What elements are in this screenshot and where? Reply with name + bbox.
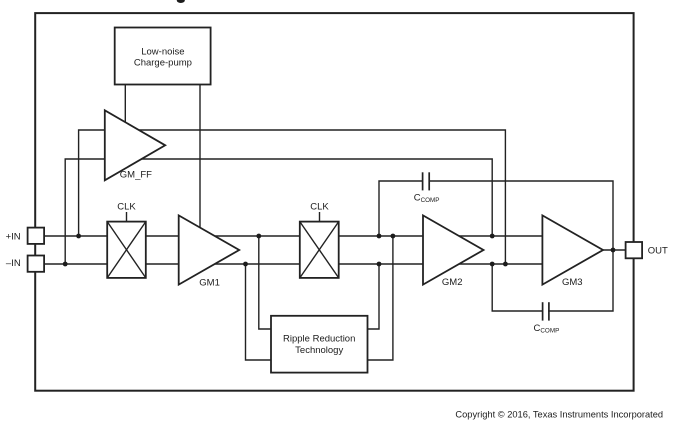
- wire signal bottom rail -IN to GM3 input: [40, 263, 542, 265]
- pin +IN: [28, 228, 44, 244]
- wire CLK tick chopper 1: [126, 212, 128, 222]
- cropped text remnant at top: [177, 0, 185, 3]
- svg-text:Ripple Reduction: Ripple Reduction: [283, 334, 355, 345]
- chopper switch 1 X: [107, 222, 146, 278]
- wire GM1 bottom output to ripple box lower-left: [246, 264, 272, 360]
- node GM1 top output junction: [256, 234, 261, 239]
- op-amp GM3: [542, 215, 603, 284]
- node C_COMP bottom left junction: [490, 262, 495, 267]
- wire C_COMP bottom capacitor left lead: [492, 264, 542, 311]
- capacitor C_COMP top plates: [422, 172, 424, 190]
- wire GM2 bottom input to ripple box upper-right: [368, 264, 380, 329]
- ripple reduction box: [271, 316, 368, 373]
- svg-text:GM1: GM1: [199, 277, 220, 288]
- svg-text:CCOMP: CCOMP: [414, 192, 440, 204]
- svg-text:Charge-pump: Charge-pump: [134, 57, 192, 68]
- wire GM2 top input to ripple box lower-right: [368, 236, 393, 360]
- pin -IN: [28, 256, 44, 272]
- node -IN junction: [63, 262, 68, 267]
- svg-text:GM_FF: GM_FF: [120, 169, 152, 180]
- wire charge-pump left supply to GM_FF: [124, 85, 126, 135]
- wire +IN to GM_FF top input riser and GM_FF top output to GM2 output node: [79, 130, 506, 264]
- op-amp GM1: [179, 215, 240, 284]
- svg-text:Technology: Technology: [295, 345, 343, 356]
- node C_COMP top left junction: [377, 234, 382, 239]
- node GM1 bottom output junction: [243, 262, 248, 267]
- svg-text:GM3: GM3: [562, 277, 583, 288]
- wire C_COMP top capacitor left lead: [379, 181, 423, 236]
- chopper switch 1: [107, 222, 146, 278]
- wire GM3 output to OUT pin: [603, 249, 626, 251]
- pin OUT: [626, 242, 643, 258]
- svg-text:OUT: OUT: [648, 245, 668, 256]
- wire charge-pump right supply to GM1: [199, 85, 201, 237]
- svg-text:Copyright © 2016, Texas Instru: Copyright © 2016, Texas Instruments Inco…: [455, 410, 663, 420]
- wire signal top rail +IN to GM3 input: [40, 235, 542, 237]
- node ripple lower-right junction: [391, 234, 396, 239]
- wire -IN to GM_FF bottom input riser and GM_FF bottom output to GM2 output node: [65, 159, 492, 264]
- chopper switch 2: [300, 222, 339, 278]
- svg-text:CLK: CLK: [310, 201, 329, 212]
- op-amp GM_FF: [105, 110, 165, 180]
- svg-text:CLK: CLK: [117, 201, 136, 212]
- svg-text:+IN: +IN: [6, 232, 21, 243]
- node GM_FF top output junction: [503, 262, 508, 267]
- svg-text:–IN: –IN: [6, 258, 21, 269]
- node OUT junction: [611, 248, 616, 253]
- svg-text:GM2: GM2: [442, 277, 463, 288]
- node +IN junction: [76, 234, 81, 239]
- border frame: [35, 13, 633, 391]
- capacitor C_COMP bottom plates: [542, 302, 544, 320]
- wire CLK tick chopper 2: [319, 212, 321, 222]
- charge pump box: [115, 28, 211, 85]
- svg-text:CCOMP: CCOMP: [534, 323, 560, 335]
- chopper switch 2 X: [300, 222, 339, 278]
- wire GM1 top output to ripple box upper-left: [259, 236, 271, 329]
- node GM_FF bottom output junction: [490, 234, 495, 239]
- wire C_COMP top capacitor right lead to OUT node riser to C_COMP bottom right lead: [429, 181, 613, 311]
- op-amp GM2: [423, 215, 484, 284]
- node ripple upper-right junction: [377, 262, 382, 267]
- svg-text:Low-noise: Low-noise: [141, 46, 184, 57]
